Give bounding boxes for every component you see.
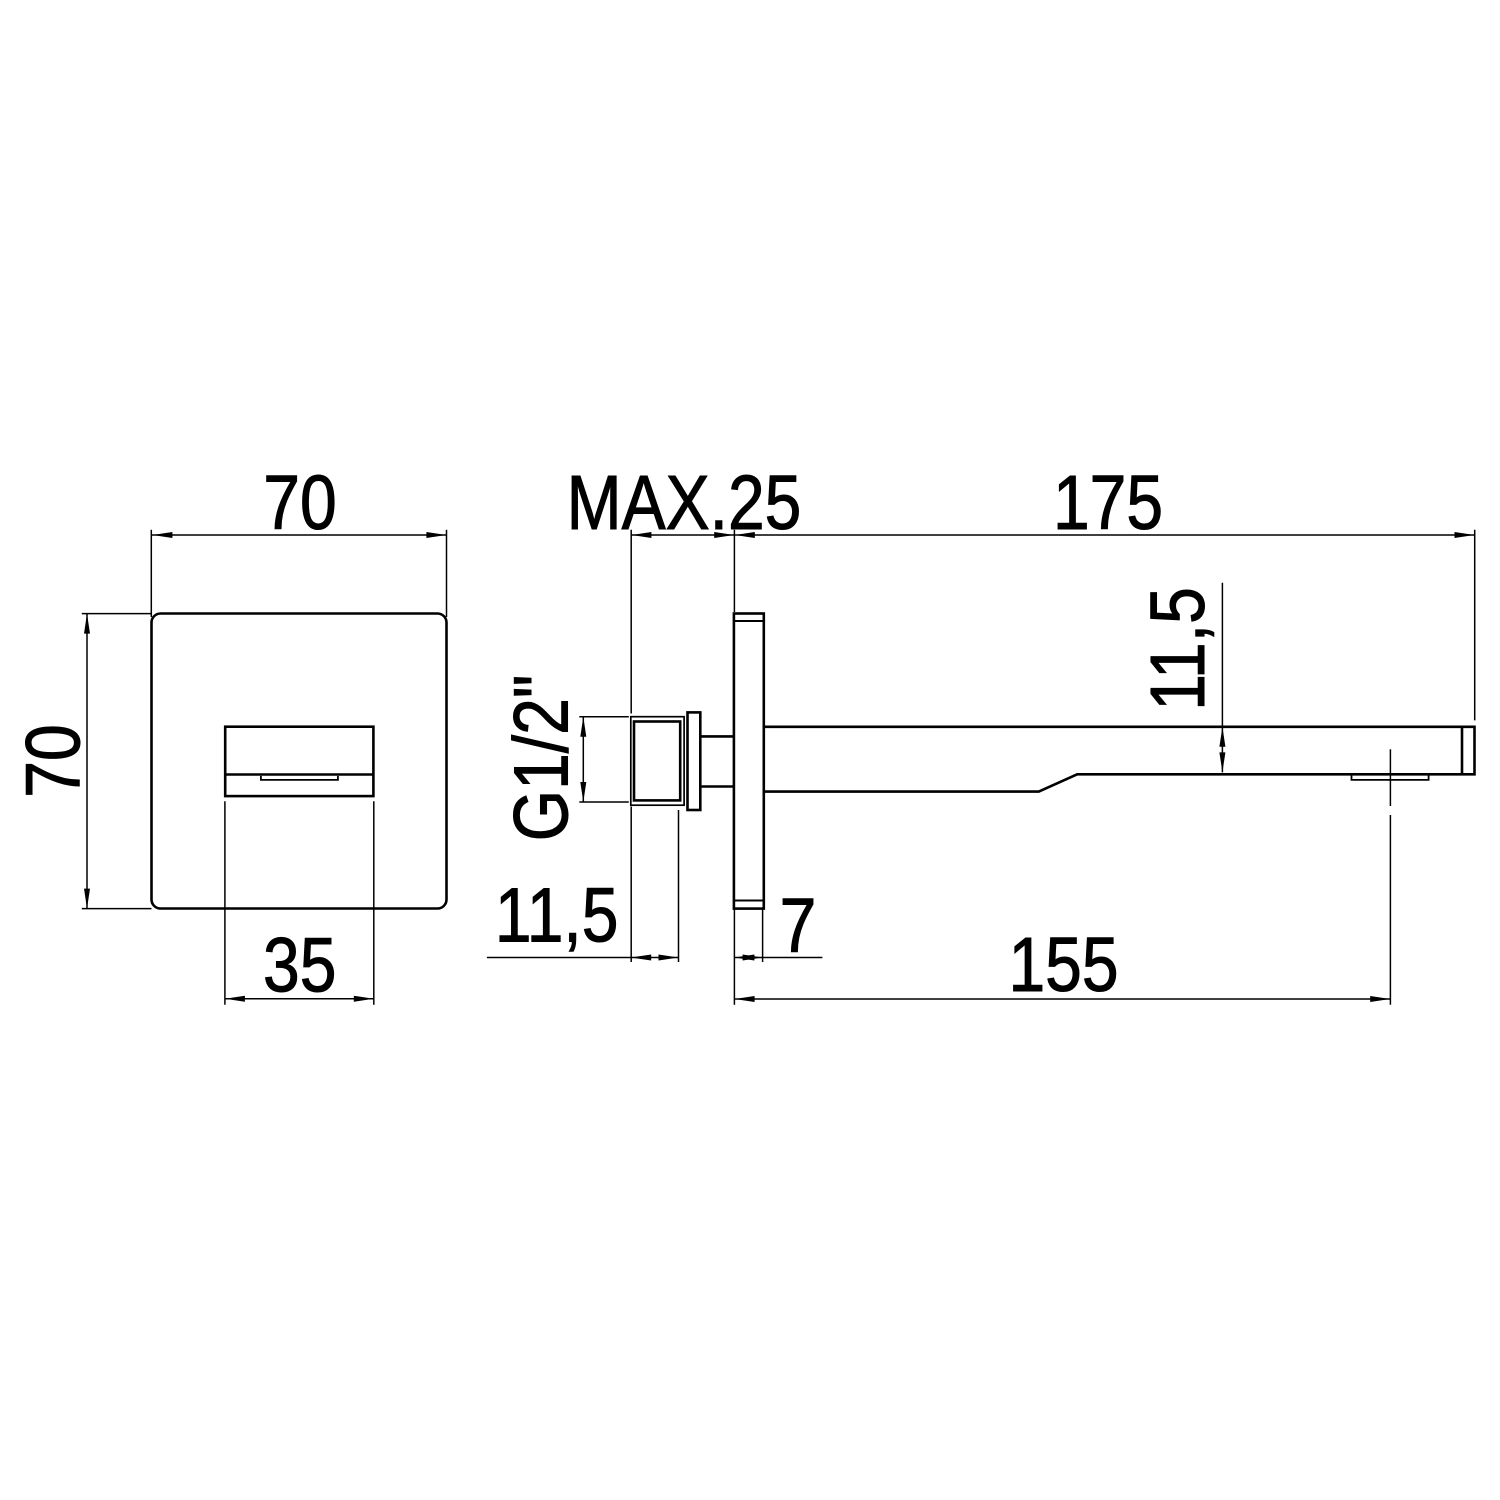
svg-text:11,5: 11,5 xyxy=(495,873,619,959)
svg-text:11,5: 11,5 xyxy=(1135,587,1221,711)
svg-text:70: 70 xyxy=(263,460,336,546)
svg-text:155: 155 xyxy=(1008,922,1118,1008)
svg-text:70: 70 xyxy=(11,724,97,797)
svg-text:175: 175 xyxy=(1053,460,1163,546)
svg-text:G1/2": G1/2" xyxy=(499,675,585,841)
svg-text:MAX.25: MAX.25 xyxy=(567,460,802,546)
svg-text:35: 35 xyxy=(263,923,336,1009)
svg-text:7: 7 xyxy=(780,883,817,969)
